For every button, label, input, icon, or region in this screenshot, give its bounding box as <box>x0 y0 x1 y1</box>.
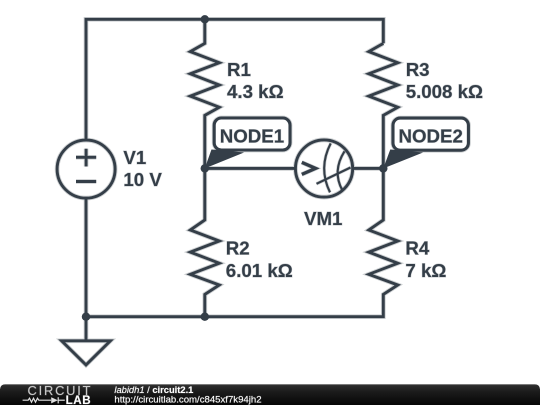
svg-text:R2: R2 <box>226 238 250 259</box>
svg-text:4.3 kΩ: 4.3 kΩ <box>227 81 284 102</box>
svg-text:labidh1 / circuit2.1: labidh1 / circuit2.1 <box>114 385 193 395</box>
svg-text:R3: R3 <box>406 59 430 80</box>
svg-text:10 V: 10 V <box>123 169 162 190</box>
svg-text:http://circuitlab.com/c845xf7k: http://circuitlab.com/c845xf7k94jh2 <box>114 395 261 405</box>
svg-text:R1: R1 <box>227 59 251 80</box>
svg-text:V1: V1 <box>123 147 146 168</box>
svg-text:7 kΩ: 7 kΩ <box>405 260 446 281</box>
svg-text:5.008 kΩ: 5.008 kΩ <box>406 81 483 102</box>
svg-text:NODE1: NODE1 <box>220 126 284 147</box>
svg-text:6.01 kΩ: 6.01 kΩ <box>226 260 293 281</box>
svg-text:NODE2: NODE2 <box>399 126 463 147</box>
svg-text:R4: R4 <box>405 238 429 259</box>
svg-text:VM1: VM1 <box>304 208 342 229</box>
svg-text:LAB: LAB <box>66 394 92 405</box>
